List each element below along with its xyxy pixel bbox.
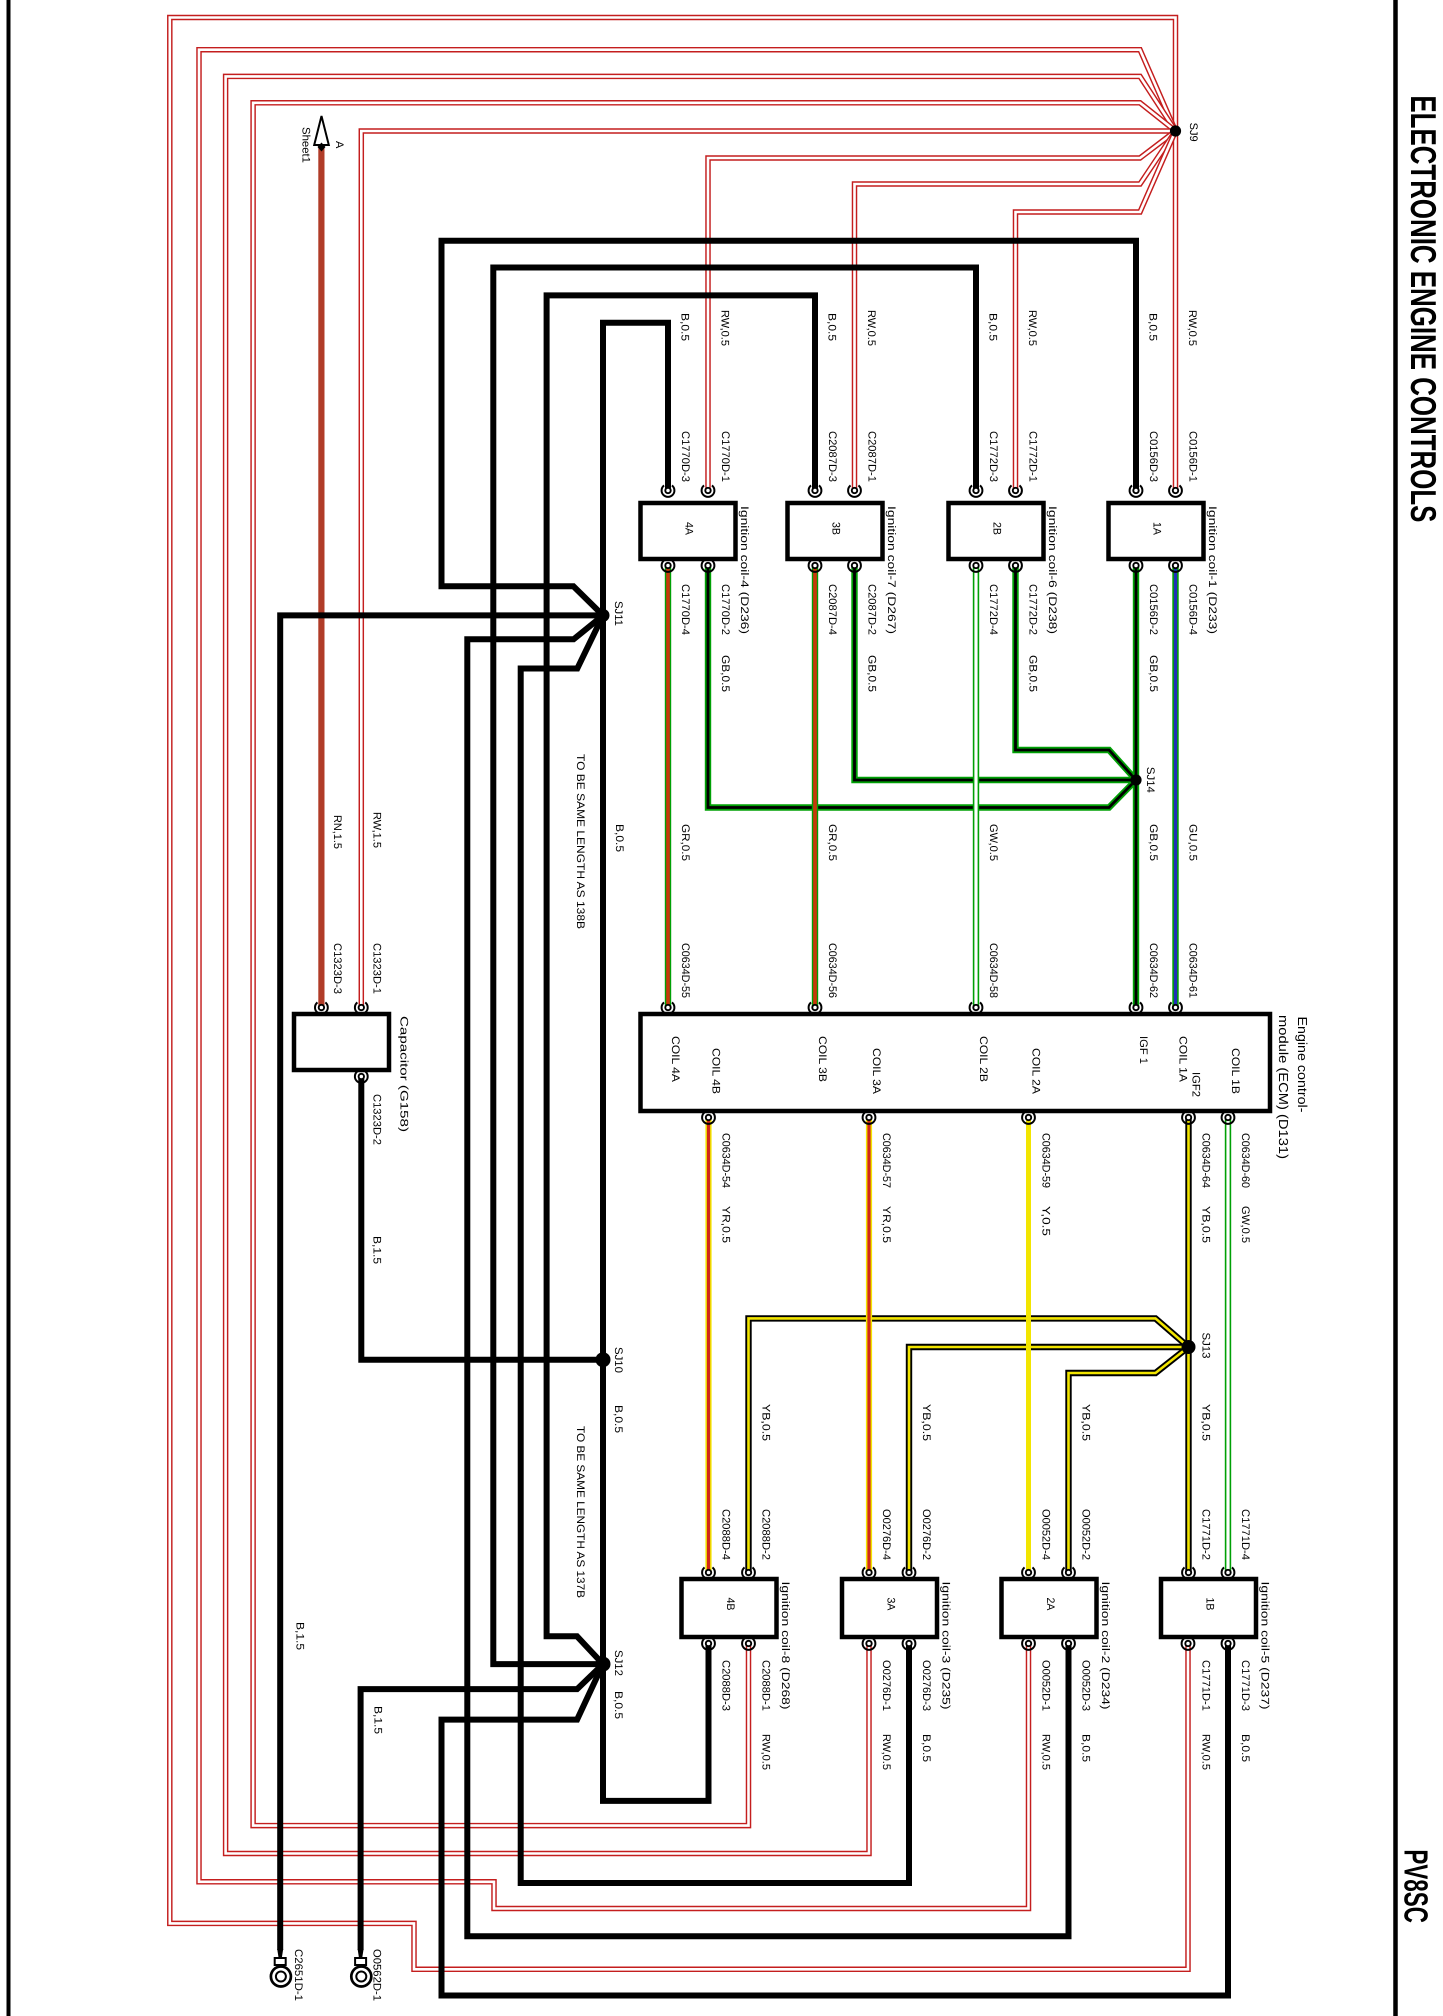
svg-text:module (ECM) (D131): module (ECM) (D131)	[1276, 1015, 1291, 1159]
terminals of coil 1A	[1130, 485, 1143, 496]
svg-text:GW,0.5: GW,0.5	[1239, 1206, 1251, 1243]
wire RW,0.5 loop: ignition coil-8 4B pin C2088D-1 to SJ9	[253, 103, 1175, 1826]
svg-text:SJ13: SJ13	[1200, 1333, 1212, 1359]
svg-text:C0634D-60: C0634D-60	[1239, 1133, 1251, 1188]
svg-text:2A: 2A	[1044, 1598, 1056, 1612]
svg-text:Ignition coil-5 (D237): Ignition coil-5 (D237)	[1259, 1582, 1271, 1710]
svg-text:COIL 2B: COIL 2B	[977, 1036, 989, 1082]
svg-text:B,0.5: B,0.5	[612, 1405, 624, 1433]
terminals of ECM bottom edge	[702, 1112, 715, 1123]
wire RW,1.5 capacitor C1323D-1 to SJ9	[361, 131, 1175, 1008]
wire YB,0.5 ECM pin IGF2 C0634D-64 through SJ13 to coil 1B pin C1771D-2	[1185, 1118, 1191, 1573]
ignition coil-6 (D238) box 2B	[949, 503, 1044, 559]
svg-text:RW,0.5: RW,0.5	[1186, 310, 1198, 346]
svg-text:C0634D-64: C0634D-64	[1200, 1133, 1212, 1188]
svg-text:C0156D-1: C0156D-1	[1187, 431, 1199, 482]
svg-text:B,0.5: B,0.5	[613, 824, 625, 852]
svg-text:C2088D-2: C2088D-2	[760, 1509, 772, 1560]
wire GB,0.5 coil 1A pin C0156D-2 through SJ14 to ECM pin IGF 1 C0634D-62	[1133, 566, 1139, 1008]
capacitor (G158) box	[294, 1014, 389, 1070]
svg-text:COIL 2A: COIL 2A	[1030, 1048, 1042, 1095]
svg-text:YB,0.5: YB,0.5	[760, 1404, 772, 1441]
svg-text:1A: 1A	[1151, 522, 1163, 536]
wire GU,0.5 coil 1A pin C0156D-4 to ECM pin COIL 1A C0634D-61	[1172, 566, 1178, 1008]
svg-text:C1772D-1: C1772D-1	[1027, 431, 1039, 482]
wire GR,0.5 coil 3B pin C2087D-4 to ECM pin COIL 3B C0634D-56	[812, 566, 818, 1008]
svg-text:Ignition coil-6 (D238): Ignition coil-6 (D238)	[1046, 506, 1058, 634]
svg-text:C1323D-2: C1323D-2	[371, 1094, 383, 1145]
wire B,0.5 coil 3B pin C2087D-3 to SJ12	[547, 295, 815, 1664]
ignition coil-2 (D234) box 2A	[1002, 1579, 1097, 1637]
svg-text:Ignition coil-1 (D233): Ignition coil-1 (D233)	[1206, 506, 1218, 634]
wire B,0.5 SJ11 to coil 3A pin O0276D-3	[521, 615, 909, 1883]
svg-text:COIL 1B: COIL 1B	[1229, 1048, 1241, 1094]
svg-text:RW,0.5: RW,0.5	[719, 310, 731, 346]
wire B,0.5 coil 4A pin C1770D-3 through SJ11 and SJ10 to SJ12	[603, 323, 668, 1664]
terminals of coil 4B	[702, 1567, 715, 1578]
terminals of ECM top edge	[662, 1002, 675, 1013]
svg-text:TO BE SAME LENGTH AS 138B: TO BE SAME LENGTH AS 138B	[574, 754, 586, 929]
wire YR,0.5 ECM pin COIL 4B C0634D-54 to coil 4B pin C2088D-4	[705, 1118, 711, 1573]
svg-text:C1772D-3: C1772D-3	[987, 431, 999, 482]
svg-text:GR,0.5: GR,0.5	[679, 824, 691, 861]
svg-text:C2088D-4: C2088D-4	[720, 1509, 732, 1560]
svg-text:B,1.5: B,1.5	[294, 1622, 306, 1650]
wire B,0.5 SJ12 to coil 4B pin C2088D-3	[603, 1644, 709, 1801]
wire B,1.5 SJ11 to ring terminal C2651D-1	[280, 615, 603, 1950]
svg-text:Ignition coil-2 (D234): Ignition coil-2 (D234)	[1099, 1582, 1111, 1710]
svg-text:SJ11: SJ11	[612, 601, 624, 626]
svg-text:Engine control-: Engine control-	[1295, 1017, 1310, 1113]
svg-text:C1771D-3: C1771D-3	[1239, 1660, 1251, 1711]
svg-text:C1770D-3: C1770D-3	[679, 431, 691, 482]
svg-text:C1772D-2: C1772D-2	[1027, 584, 1039, 635]
sheet reference arrow A Sheet1	[314, 116, 329, 145]
ignition coil-3 (D235) box 3A	[842, 1579, 937, 1637]
svg-text:3A: 3A	[885, 1598, 897, 1612]
svg-text:COIL 4A: COIL 4A	[669, 1036, 681, 1083]
wire RW,0.5 coil-6 2B pin C1772D-1 to SJ9	[1016, 131, 1176, 491]
svg-text:YB,0.5: YB,0.5	[920, 1404, 932, 1441]
wire GB,0.5 coil 2B pin C1772D-2 to SJ14	[1016, 566, 1137, 781]
svg-text:C1772D-4: C1772D-4	[987, 584, 999, 635]
svg-text:C2087D-1: C2087D-1	[866, 431, 878, 482]
svg-text:IGF2: IGF2	[1190, 1072, 1202, 1097]
svg-text:COIL 4B: COIL 4B	[710, 1048, 722, 1094]
svg-text:COIL 3B: COIL 3B	[816, 1036, 828, 1082]
svg-text:TO BE SAME LENGTH AS 137B: TO BE SAME LENGTH AS 137B	[574, 1426, 586, 1598]
svg-text:C1771D-4: C1771D-4	[1239, 1509, 1251, 1560]
svg-text:B,0.5: B,0.5	[1080, 1734, 1092, 1762]
svg-text:C0156D-3: C0156D-3	[1147, 431, 1159, 482]
svg-text:C1771D-2: C1771D-2	[1200, 1509, 1212, 1560]
wire RW,0.5 coil-7 3B pin C2087D-1 to SJ9	[855, 131, 1176, 491]
svg-text:O0276D-3: O0276D-3	[920, 1660, 932, 1711]
ring terminal O0562D-1	[358, 1949, 364, 1958]
svg-text:C2088D-3: C2088D-3	[720, 1660, 732, 1711]
svg-text:Capacitor (G158): Capacitor (G158)	[398, 1016, 410, 1132]
ignition coil-5 (D237) box 1B	[1161, 1579, 1256, 1637]
svg-text:YR,0.5: YR,0.5	[880, 1206, 892, 1243]
svg-text:C1770D-4: C1770D-4	[679, 584, 691, 635]
svg-text:YB,0.5: YB,0.5	[1200, 1404, 1212, 1441]
svg-text:4B: 4B	[724, 1598, 736, 1611]
svg-text:C0634D-61: C0634D-61	[1187, 943, 1199, 998]
svg-text:O0052D-3: O0052D-3	[1080, 1660, 1092, 1711]
svg-text:B,1.5: B,1.5	[371, 1236, 383, 1264]
svg-text:B,0.5: B,0.5	[920, 1734, 932, 1762]
svg-text:C0156D-2: C0156D-2	[1147, 584, 1159, 635]
svg-text:O0276D-2: O0276D-2	[920, 1509, 932, 1560]
svg-text:YB,0.5: YB,0.5	[1080, 1404, 1092, 1441]
junction SJ9	[1170, 125, 1181, 136]
svg-text:B,0.5: B,0.5	[679, 313, 691, 341]
terminals of coil 4A	[662, 485, 675, 496]
junction SJ13	[1182, 1340, 1196, 1354]
terminals of coil 3B	[809, 485, 822, 496]
svg-text:RW,0.5: RW,0.5	[1200, 1734, 1212, 1770]
svg-text:Y,0.5: Y,0.5	[1040, 1206, 1052, 1236]
svg-text:O0052D-1: O0052D-1	[1040, 1660, 1052, 1711]
terminals of coil 3A	[863, 1567, 876, 1578]
ring terminal C2651D-1	[277, 1949, 283, 1958]
svg-text:C2087D-2: C2087D-2	[866, 584, 878, 635]
svg-text:COIL 3A: COIL 3A	[870, 1048, 882, 1095]
svg-text:B,0.5: B,0.5	[987, 313, 999, 341]
svg-text:Ignition coil-3 (D235): Ignition coil-3 (D235)	[940, 1582, 952, 1710]
svg-text:B,1.5: B,1.5	[372, 1706, 384, 1734]
ignition coil-8 (D268) box 4B	[682, 1579, 777, 1637]
svg-text:C1323D-3: C1323D-3	[331, 943, 343, 994]
junction SJ11	[597, 609, 610, 622]
svg-text:B,0.5: B,0.5	[612, 1691, 624, 1719]
svg-text:C0634D-62: C0634D-62	[1147, 943, 1159, 998]
svg-text:RN,1.5: RN,1.5	[331, 815, 343, 849]
wire RN,1.5 sheet arrow A to capacitor C1323D-3	[318, 146, 324, 1008]
frame line left	[7, 0, 11, 2016]
junction SJ10	[596, 1352, 611, 1367]
ignition coil-4 (D236) box 4A	[641, 503, 736, 559]
svg-text:GU,0.5: GU,0.5	[1187, 824, 1199, 861]
svg-text:C0634D-57: C0634D-57	[880, 1133, 892, 1188]
wire B,0.5 coil 2B pin C1772D-3 to SJ12	[493, 268, 976, 1665]
svg-text:RW,0.5: RW,0.5	[1040, 1734, 1052, 1770]
wire RW,0.5 loop: ignition coil-2 2A pin O0052D-1 to SJ9	[199, 50, 1176, 1909]
svg-text:RW,0.5: RW,0.5	[1026, 310, 1038, 346]
wire B,0.5 SJ11 to coil 2A pin O0052D-3	[467, 615, 1068, 1936]
wire RW,0.5 loop: ignition coil-3 3A pin O0276D-1 to SJ9	[226, 76, 1176, 1853]
svg-text:ELECTRONIC ENGINE CONTROLS: ELECTRONIC ENGINE CONTROLS	[1403, 95, 1443, 522]
svg-text:O0276D-1: O0276D-1	[880, 1660, 892, 1711]
terminals of coil 2A	[1022, 1567, 1035, 1578]
svg-text:C0634D-54: C0634D-54	[720, 1133, 732, 1188]
svg-text:C0634D-55: C0634D-55	[679, 943, 691, 998]
wire GW,0.5 coil 2B pin C1772D-4 to ECM pin COIL 2B C0634D-58	[973, 566, 979, 1008]
svg-text:2B: 2B	[991, 522, 1003, 535]
junction SJ14	[1130, 774, 1141, 785]
svg-text:Sheet1: Sheet1	[300, 127, 312, 163]
wire B,0.5 SJ12 to coil 1B pin C1771D-3	[442, 1644, 1229, 1996]
svg-text:O0052D-4: O0052D-4	[1040, 1509, 1052, 1560]
svg-text:RW,1.5: RW,1.5	[371, 812, 383, 848]
ignition coil-1 (D233) box 1A	[1109, 503, 1204, 559]
svg-text:GB,0.5: GB,0.5	[1027, 655, 1039, 692]
svg-text:GB,0.5: GB,0.5	[1147, 655, 1159, 692]
wire GB,0.5 coil 3B pin C2087D-2 to SJ14	[855, 566, 1137, 781]
svg-text:C0156D-4: C0156D-4	[1187, 584, 1199, 635]
svg-text:PV8SC: PV8SC	[1397, 1849, 1434, 1923]
svg-text:RW,0.5: RW,0.5	[760, 1734, 772, 1770]
wire GR,0.5 coil 4A pin C1770D-4 to ECM pin COIL 4A C0634D-55	[665, 566, 671, 1008]
svg-text:C2651D-1: C2651D-1	[292, 1949, 304, 2001]
wire B,0.5 coil 1A pin C0156D-3 to SJ11	[442, 241, 1137, 616]
svg-text:SJ12: SJ12	[612, 1650, 624, 1676]
svg-text:C0634D-59: C0634D-59	[1040, 1133, 1052, 1188]
wire B,1.5 SJ12 to ring terminal O0562D-1	[361, 1664, 603, 1950]
svg-text:SJ10: SJ10	[612, 1347, 624, 1373]
svg-text:IGF 1: IGF 1	[1137, 1036, 1149, 1064]
wire GW,0.5 ECM pin COIL 1B C0634D-60 to coil 1B pin C1771D-4	[1225, 1118, 1231, 1573]
svg-text:SJ14: SJ14	[1144, 767, 1156, 793]
svg-text:C1323D-1: C1323D-1	[371, 943, 383, 994]
svg-text:RW,0.5: RW,0.5	[865, 310, 877, 346]
svg-text:GW,0.5: GW,0.5	[987, 824, 999, 861]
svg-text:B,0.5: B,0.5	[1147, 313, 1159, 341]
svg-text:1B: 1B	[1204, 1598, 1216, 1611]
svg-text:C2088D-1: C2088D-1	[760, 1660, 772, 1711]
svg-text:Ignition coil-4 (D236): Ignition coil-4 (D236)	[738, 506, 750, 634]
wire YB,0.5 SJ13 branch to coil 3A pin O0276D-2	[909, 1347, 1189, 1573]
wire B,1.5 capacitor C1323D-2 to SJ10	[361, 1077, 603, 1360]
svg-text:O0562D-1: O0562D-1	[371, 1949, 383, 2001]
svg-text:C2087D-4: C2087D-4	[826, 584, 838, 635]
svg-text:GB,0.5: GB,0.5	[1147, 824, 1159, 861]
svg-text:YB,0.5: YB,0.5	[1200, 1206, 1212, 1243]
svg-text:3B: 3B	[830, 522, 842, 535]
wire Y,0.5 ECM pin COIL 2A C0634D-59 to coil 2A pin O0052D-4	[1026, 1118, 1031, 1573]
svg-text:A: A	[333, 141, 345, 149]
svg-text:C1770D-2: C1770D-2	[719, 584, 731, 635]
svg-text:C1771D-1: C1771D-1	[1200, 1660, 1212, 1711]
engine control module ECM (D131) box	[641, 1014, 1271, 1111]
wire GB,0.5 coil 4A pin C1770D-2 to SJ14	[708, 566, 1136, 808]
ignition coil-7 (D267) box 3B	[788, 503, 883, 559]
svg-text:COIL 1A: COIL 1A	[1177, 1036, 1189, 1083]
svg-text:O0276D-4: O0276D-4	[880, 1509, 892, 1560]
svg-text:Ignition coil-7 (D267): Ignition coil-7 (D267)	[885, 506, 897, 634]
svg-text:Ignition coil-8 (D268): Ignition coil-8 (D268)	[779, 1582, 791, 1710]
wire YR,0.5 ECM pin COIL 3A C0634D-57 to coil 3A pin O0276D-4	[866, 1118, 872, 1573]
terminals of coil 1B	[1182, 1567, 1195, 1578]
junction SJ12	[596, 1657, 611, 1672]
wire RW,0.5 loop: ignition coil-5 1B pin C1771D-1 to SJ9 to coil-1 1A pin C0156D-1	[170, 18, 1188, 1970]
svg-text:C1770D-1: C1770D-1	[719, 431, 731, 482]
svg-text:B,0.5: B,0.5	[826, 313, 838, 341]
terminals of coil 2B	[970, 485, 983, 496]
svg-text:SJ9: SJ9	[1187, 123, 1199, 142]
svg-text:C0634D-58: C0634D-58	[987, 943, 999, 998]
svg-text:GB,0.5: GB,0.5	[866, 655, 878, 692]
terminals of capacitor G158	[315, 1002, 328, 1013]
svg-text:C2087D-3: C2087D-3	[826, 431, 838, 482]
svg-text:O0052D-2: O0052D-2	[1080, 1509, 1092, 1560]
wire RW,0.5 coil-4 4A pin C1770D-1 to SJ9	[708, 131, 1176, 491]
svg-text:B,0.5: B,0.5	[1239, 1734, 1251, 1762]
svg-text:GR,0.5: GR,0.5	[826, 824, 838, 861]
svg-text:YR,0.5: YR,0.5	[720, 1206, 732, 1243]
svg-text:C0634D-56: C0634D-56	[826, 943, 838, 998]
svg-text:4A: 4A	[683, 522, 695, 536]
frame line right	[1393, 0, 1398, 2016]
wire YB,0.5 SJ13 branch to coil 4B pin C2088D-2	[749, 1318, 1189, 1572]
svg-text:RW,0.5: RW,0.5	[880, 1734, 892, 1770]
wire YB,0.5 SJ13 branch to coil 2A pin O0052D-2	[1069, 1347, 1189, 1573]
svg-text:GB,0.5: GB,0.5	[719, 655, 731, 692]
